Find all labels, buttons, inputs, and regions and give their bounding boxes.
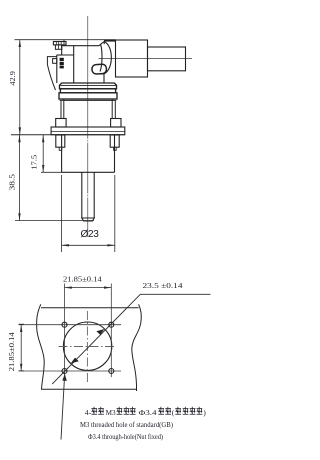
centerline vertical of connector xyxy=(87,16,89,237)
svg-text:M3: M3 xyxy=(106,408,116,417)
svg-text:Φ3.4: Φ3.4 xyxy=(139,408,157,417)
oval recess in dome xyxy=(92,64,107,74)
hole row centerline bottom xyxy=(19,370,122,372)
dimension 42.9 xyxy=(19,40,21,135)
dome (elbow front cover) xyxy=(100,40,116,74)
connector elbow body xyxy=(57,42,104,84)
mounting hole top-left xyxy=(62,322,67,327)
dimension 21.85 vertical xyxy=(19,324,24,371)
threaded stud xyxy=(82,172,94,221)
hole row centerline top xyxy=(19,324,122,326)
nuts below flange xyxy=(56,135,119,150)
receptacle barrel below panel (D23) xyxy=(62,135,115,172)
leader diagonal for 23.5 xyxy=(52,294,210,384)
dimension D23 xyxy=(62,175,115,252)
receptacle neck xyxy=(61,99,115,119)
mounting hole bottom-left xyxy=(62,369,67,374)
mounting hole bottom-right xyxy=(109,369,114,374)
cable ferrule xyxy=(148,47,186,71)
diameter arrows on circle xyxy=(71,329,105,363)
extension line top (42.9) xyxy=(15,39,116,41)
leader to bottom-left hole (note) xyxy=(61,376,65,440)
panel plate bottom edge xyxy=(41,388,136,390)
hole column centerline right xyxy=(110,284,112,378)
gasket ring stack xyxy=(59,83,117,100)
dimension 21.85 horizontal xyxy=(65,287,112,289)
svg-text:): ) xyxy=(203,408,206,417)
mounting bolt heads xyxy=(56,119,121,128)
panel line xyxy=(11,134,125,136)
cutout circle xyxy=(63,322,111,370)
dimension 38.5 xyxy=(15,135,94,221)
circle vertical centerline xyxy=(86,311,88,383)
left break (wavy) edge xyxy=(37,304,45,389)
flange plate xyxy=(51,127,125,135)
right break (wavy) edge xyxy=(132,304,141,391)
key marking B on body xyxy=(60,58,64,69)
cable barrel xyxy=(116,40,148,77)
mounting hole top-right xyxy=(109,322,114,327)
svg-text:(: ( xyxy=(172,408,175,417)
cable axis centerline xyxy=(99,58,193,60)
hole column centerline left xyxy=(64,284,66,378)
dimension 17.5 xyxy=(41,135,62,172)
panel plate top edge xyxy=(41,307,139,309)
latch beak on left of body xyxy=(47,57,56,90)
note line 1: "4-标准M3螺孔或Φ3.4通孔(螺母固定)" with simulated CJK glyphs xyxy=(0,0,215,460)
cap bar on top-left of body xyxy=(53,40,66,49)
circle horizontal centerline xyxy=(59,346,115,348)
svg-text:4-: 4- xyxy=(85,408,92,417)
